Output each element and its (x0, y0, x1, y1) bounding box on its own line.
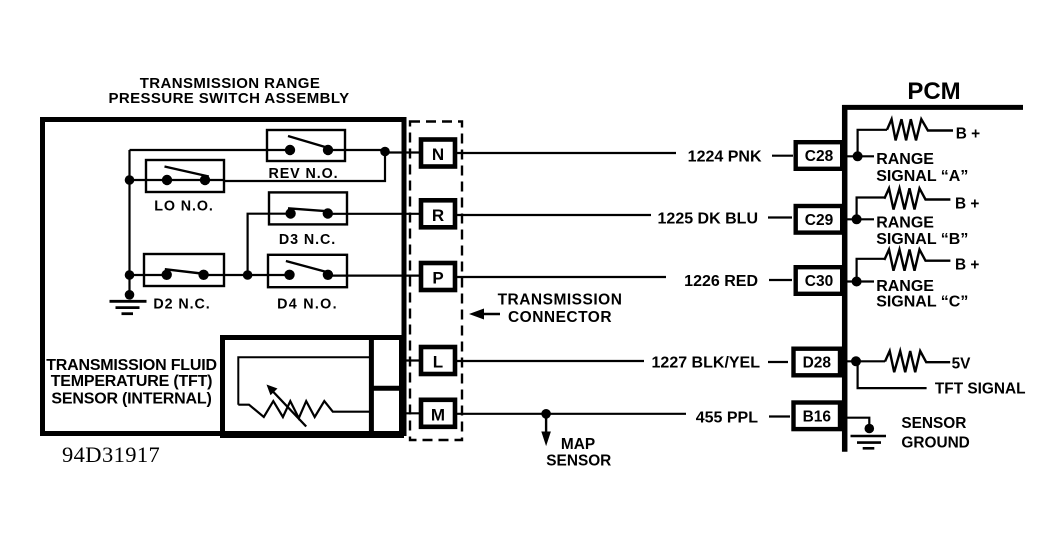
svg-text:TFT SIGNAL: TFT SIGNAL (935, 381, 1026, 398)
switch assembly enclosure box (43, 120, 405, 434)
svg-text:B16: B16 (803, 408, 832, 425)
ground (PCM sensor ground) (851, 436, 887, 448)
arrow: to MAP sensor (545, 416, 547, 434)
switch D4 (normally open) (268, 255, 347, 287)
PCM connector C28 (796, 142, 843, 169)
switch D3 (normally closed) (269, 192, 347, 224)
node: ground junction (125, 290, 135, 300)
svg-text:RANGE: RANGE (876, 215, 934, 232)
callout arrow to connector (483, 313, 500, 316)
wire: junction to terminal N (385, 151, 421, 153)
node: MAP sensor tap on 455 PPL (541, 409, 551, 419)
transmission connector dashed outline (410, 122, 462, 441)
svg-text:SENSOR: SENSOR (901, 415, 966, 432)
label: RANGE SIGNAL "C" (876, 278, 968, 311)
terminal pin P (421, 263, 455, 290)
svg-text:PCM: PCM (907, 78, 960, 105)
wire: TFT signal branch (858, 361, 927, 388)
resistor pull-up to B+ (range A) (887, 119, 953, 140)
node: C29 junction (852, 214, 862, 224)
label: SENSOR GROUND (901, 415, 969, 451)
svg-text:D2 N.C.: D2 N.C. (153, 297, 210, 313)
wire: riser to pull-up resistor C (857, 259, 885, 282)
wire: circuit 1225 DK BLU (pin R to C29) (455, 214, 651, 216)
svg-text:5V: 5V (952, 356, 972, 373)
label: RANGE SIGNAL "A" (876, 151, 968, 185)
wire: 1224 stub at C28 (772, 155, 793, 157)
label: TRANSMISSION FLUID TEMPERATURE (TFT) SENSOR (INTERNAL) (46, 357, 217, 408)
svg-text:1226 RED: 1226 RED (684, 273, 758, 290)
terminal pin L (421, 347, 455, 374)
terminal pin R (421, 200, 455, 227)
svg-text:B +: B + (955, 196, 979, 213)
PCM connector B16 (794, 403, 841, 430)
node: C30 junction (852, 277, 862, 287)
terminal pin N (421, 140, 455, 167)
terminal pin M (421, 400, 455, 427)
wire: C28 internal stub (847, 155, 874, 157)
node: D2/D4 junction (243, 270, 253, 280)
svg-text:TRANSMISSION FLUID: TRANSMISSION FLUID (46, 357, 217, 374)
svg-text:C28: C28 (805, 148, 834, 165)
svg-text:B +: B + (955, 257, 979, 274)
svg-text:SENSOR: SENSOR (546, 453, 611, 470)
wire: D28 internal stub (847, 360, 885, 362)
TFT sensor box (223, 338, 402, 436)
resistor pull-up to B+ (range B) (884, 188, 950, 209)
wire: TFT element frame (top and left) (238, 357, 369, 405)
svg-text:P: P (432, 269, 443, 288)
svg-text:M: M (431, 405, 445, 424)
PCM connector D28 (794, 349, 841, 376)
svg-text:R: R (432, 206, 444, 225)
label: TRANSMISSION CONNECTOR callout (498, 291, 623, 326)
svg-text:N: N (432, 145, 444, 164)
TFT terminal divider vertical (369, 335, 374, 438)
wire: 1227 stub at D28 (768, 361, 788, 363)
svg-text:94D31917: 94D31917 (62, 442, 160, 467)
wire: sensor ground lead (847, 418, 869, 425)
svg-text:C30: C30 (805, 273, 833, 290)
wire: riser to pull-up resistor B (857, 198, 885, 220)
svg-text:CONNECTOR: CONNECTOR (508, 309, 612, 326)
svg-text:D28: D28 (803, 355, 832, 372)
thermistor (TFT sensing element) (238, 401, 370, 418)
svg-text:1225 DK BLU: 1225 DK BLU (658, 211, 758, 228)
svg-text:LO N.O.: LO N.O. (154, 199, 214, 215)
node: LO left junction (125, 175, 135, 185)
svg-text:D3 N.C.: D3 N.C. (279, 232, 336, 248)
wire: REV output to junction (328, 149, 385, 151)
PCM top edge (842, 105, 1023, 110)
wire: circuit 455 PPL (pin M to B16) (455, 413, 686, 415)
wire: D4 output to terminal P (328, 275, 421, 277)
switch D2 (normally closed) (144, 254, 224, 286)
node: D2 left junction (125, 270, 135, 280)
svg-text:455 PPL: 455 PPL (696, 409, 758, 426)
wire: 1226 stub at C30 (769, 279, 792, 281)
svg-text:MAP: MAP (561, 436, 595, 453)
thermistor variable arrow (272, 391, 306, 427)
PCM connector C29 (796, 206, 843, 233)
resistor pull-up to B+ (range C) (884, 250, 950, 271)
svg-text:B +: B + (956, 125, 980, 142)
svg-text:SIGNAL “B”: SIGNAL “B” (876, 231, 968, 248)
wire: circuit 1224 PNK (pin N to C28) (455, 152, 676, 154)
wire: LO left lead (130, 179, 168, 181)
wire: D3 output to terminal R (328, 213, 421, 215)
svg-text:PRESSURE SWITCH ASSEMBLY: PRESSURE SWITCH ASSEMBLY (108, 90, 349, 107)
svg-text:C29: C29 (805, 212, 834, 229)
resistor pull-up to 5V (885, 351, 950, 372)
wire: TFT upper terminal to pin L (404, 359, 421, 361)
PCM connector C30 (796, 267, 843, 294)
node: REV output junction (380, 147, 390, 157)
svg-text:TEMPERATURE (TFT): TEMPERATURE (TFT) (51, 373, 213, 390)
wire: 1225 stub at C29 (768, 216, 792, 218)
node: D28 junction (851, 356, 861, 366)
svg-text:L: L (433, 353, 443, 372)
node: sensor ground dot (865, 424, 875, 434)
wire: C30 internal stub (847, 280, 874, 282)
label: RANGE SIGNAL "B" (876, 215, 968, 249)
svg-text:TRANSMISSION: TRANSMISSION (498, 291, 623, 308)
svg-text:1227 BLK/YEL: 1227 BLK/YEL (652, 355, 761, 372)
wire: D2/D4 junction riser to D3 input (248, 214, 291, 275)
label: MAP SENSOR (546, 436, 611, 470)
wire: junction down and left to LO output (224, 152, 385, 182)
PCM left edge (842, 105, 848, 452)
wire: 455 stub at B16 (769, 415, 790, 417)
TFT terminal divider horizontal (371, 386, 404, 391)
wire: D2 left lead (130, 274, 168, 276)
wire: TFT lower terminal to pin M (404, 412, 421, 414)
switch LO (normally open) (146, 160, 224, 192)
ground (switch assembly common) (110, 301, 147, 313)
svg-text:REV N.O.: REV N.O. (269, 166, 339, 182)
wire: REV left lead (130, 149, 291, 151)
wire: circuit 1227 BLK/YEL (pin L to D28) (455, 360, 644, 362)
label: TRANSMISSION RANGE PRESSURE SWITCH ASSEMBLY title (108, 75, 349, 107)
wire: circuit 1226 RED (pin P to C30) (455, 276, 666, 278)
wire: common trunk vertical to ground (128, 150, 130, 296)
wire: C29 internal stub (847, 218, 874, 220)
switch REV (normally open) (267, 130, 345, 161)
svg-text:SENSOR (INTERNAL): SENSOR (INTERNAL) (51, 391, 211, 408)
svg-text:GROUND: GROUND (901, 435, 969, 452)
svg-text:D4 N.O.: D4 N.O. (277, 297, 338, 313)
svg-text:RANGE: RANGE (876, 151, 934, 168)
svg-text:1224 PNK: 1224 PNK (688, 149, 762, 166)
node: C28 junction (853, 151, 863, 161)
svg-text:SIGNAL “C”: SIGNAL “C” (876, 294, 968, 311)
wire: D2 output to D4 input (204, 274, 290, 276)
svg-text:SIGNAL “A”: SIGNAL “A” (876, 168, 968, 185)
svg-text:RANGE: RANGE (876, 278, 934, 295)
wire: riser to pull-up resistor A (858, 130, 887, 157)
